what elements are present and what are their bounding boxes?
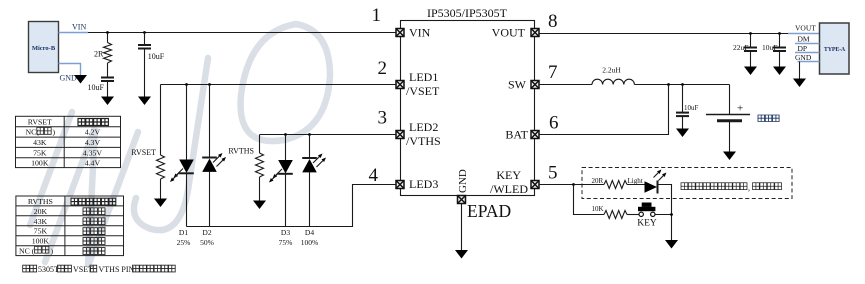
wire C2 to gnd: [144, 49, 146, 97]
pin 7 square: [531, 81, 539, 89]
svg-text:DM: DM: [798, 35, 810, 44]
svg-text:+: +: [737, 103, 743, 115]
svg-text:SW: SW: [508, 78, 527, 92]
svg-text:TYPE-A: TYPE-A: [824, 47, 846, 53]
connector J2 TYPE-A: [820, 23, 850, 74]
ground battery: [723, 152, 736, 161]
pin 2 square: [396, 81, 404, 89]
svg-text:D1: D1: [179, 228, 188, 237]
svg-text:): ): [51, 247, 54, 256]
wire BAT rail: [540, 85, 669, 135]
wire TYPE-A gnd drop: [799, 62, 801, 79]
svg-text:10uF: 10uF: [762, 43, 777, 52]
svg-text:10uF: 10uF: [148, 52, 165, 61]
pin 6 square: [531, 131, 539, 139]
wire D2 drop: [208, 83, 211, 86]
resistor RVTHS: [228, 147, 263, 178]
ground C3: [744, 67, 757, 76]
op IC U1 IP5305 body: [401, 6, 535, 196]
capacitor C3 22uF: [733, 43, 757, 52]
wire 20R to LED: [627, 184, 645, 186]
junction C5: [681, 83, 684, 86]
svg-text:4.35V: 4.35V: [83, 148, 103, 157]
diode D5 Light LED: [645, 170, 667, 194]
svg-text:BAT: BAT: [505, 128, 528, 142]
table1 header cjk: [78, 119, 108, 126]
svg-text:Light: Light: [628, 177, 643, 185]
resistor 2R: [94, 43, 112, 64]
wire to 20R: [574, 184, 605, 186]
ground C5: [676, 129, 689, 138]
junction VIN-C2: [143, 31, 146, 34]
wire pin5 out: [540, 184, 574, 186]
svg-text:100%: 100%: [301, 238, 319, 247]
ground C4: [773, 67, 786, 76]
svg-text:IP5305/IP5305T: IP5305/IP5305T: [427, 6, 508, 20]
svg-text:RVSET: RVSET: [28, 117, 52, 126]
svg-text:LED2: LED2: [409, 120, 438, 134]
wire D4 bottom: [309, 172, 311, 227]
svg-text:): ): [53, 128, 56, 137]
svg-text:10uF: 10uF: [684, 104, 699, 112]
wire D3 bottom: [285, 174, 287, 227]
svg-text:75K: 75K: [33, 148, 47, 157]
svg-text:50%: 50%: [200, 238, 214, 247]
svg-text:20K: 20K: [34, 207, 48, 216]
svg-text:RVTHS: RVTHS: [28, 197, 53, 206]
wire D3 drop: [284, 133, 287, 136]
diode D2 LED: [202, 153, 226, 172]
svg-text:5: 5: [548, 163, 558, 184]
svg-text:4.2V: 4.2V: [85, 128, 101, 137]
wire to 10K: [574, 185, 605, 215]
svg-text:43K: 43K: [33, 138, 47, 147]
svg-text:5305T: 5305T: [38, 265, 59, 274]
svg-text:VOUT: VOUT: [492, 26, 526, 40]
svg-text:NC(: NC(: [26, 128, 40, 137]
wire inductor to battery: [634, 84, 729, 86]
svg-text:VOUT: VOUT: [795, 24, 816, 33]
wire battery gnd: [729, 121, 731, 152]
pin 8 square: [531, 29, 539, 37]
junction VIN-2R: [106, 31, 109, 34]
svg-text:VIN: VIN: [409, 26, 431, 40]
svg-text:10K: 10K: [592, 205, 604, 213]
wire D4 drop: [308, 133, 311, 136]
ground C2: [138, 97, 151, 106]
wire RVSET to gnd: [160, 179, 162, 199]
svg-text:GND: GND: [60, 74, 78, 83]
svg-text:6: 6: [549, 113, 559, 134]
wire LED to drop: [659, 185, 672, 241]
resistor R 10K: [592, 205, 628, 219]
svg-text:7: 7: [548, 62, 558, 83]
svg-text:D4: D4: [305, 228, 314, 237]
svg-text:D3: D3: [281, 228, 290, 237]
table RVTHS: [16, 196, 124, 256]
svg-text:75%: 75%: [279, 238, 293, 247]
svg-text:,: ,: [748, 184, 750, 193]
svg-text:D2: D2: [202, 228, 211, 237]
svg-text:GND: GND: [795, 53, 812, 62]
wire 2R top: [107, 33, 109, 43]
pin 5 square: [531, 181, 539, 189]
wire GND stub blue: [59, 64, 81, 76]
pin 1 VIN square: [396, 29, 404, 37]
ground key: [665, 240, 678, 249]
svg-text:RVSET: RVSET: [131, 148, 156, 157]
svg-text:2.2uH: 2.2uH: [602, 66, 621, 75]
connector J1 Micro-B: [29, 22, 59, 73]
pin 9 EPAD square: [458, 196, 466, 204]
pin 4 square: [396, 181, 404, 189]
ground C1: [101, 97, 114, 106]
svg-text:4.3V: 4.3V: [85, 138, 101, 147]
svg-text:/WLED: /WLED: [490, 182, 528, 196]
ground TYPE-A: [793, 79, 806, 88]
svg-text:/VTHS: /VTHS: [406, 134, 441, 148]
junction C4: [778, 32, 781, 35]
svg-text:75K: 75K: [34, 227, 48, 236]
ground EPAD: [455, 250, 468, 259]
wire D2 bottom: [209, 172, 211, 227]
svg-text:100K: 100K: [31, 159, 49, 168]
wire D1 bottom: [186, 174, 188, 227]
wire VIN stub blue: [59, 32, 89, 34]
table RVSET: [16, 116, 121, 167]
pin 3 square: [396, 131, 404, 139]
svg-text:4: 4: [369, 165, 379, 186]
wire RVTHS to gnd: [259, 177, 261, 201]
svg-text:Micro-B: Micro-B: [32, 45, 56, 52]
wire RVTHS drop: [259, 135, 261, 154]
diode D3 LED: [269, 160, 293, 183]
pin numbers: [369, 5, 559, 186]
wire VOUT rail: [540, 33, 789, 35]
svg-text:4.4V: 4.4V: [85, 159, 101, 168]
note caption: [23, 265, 176, 274]
switch KEY pushbutton: [637, 203, 657, 229]
wire D1 drop: [185, 83, 188, 86]
wire DM stub: [795, 43, 820, 45]
wire key to junction: [655, 214, 672, 216]
capacitor C4 10uF: [762, 43, 786, 52]
wire C3 drop: [750, 34, 752, 48]
diode D1 LED: [170, 160, 194, 183]
junction C3: [749, 32, 752, 35]
svg-text:43K: 43K: [34, 217, 48, 226]
svg-text:25%: 25%: [177, 238, 191, 247]
resistor RVSET: [131, 148, 164, 179]
inductor L1 2.2uH: [592, 66, 634, 85]
svg-text:KEY: KEY: [496, 168, 521, 182]
svg-text:EPAD: EPAD: [467, 201, 511, 221]
svg-text:KEY: KEY: [637, 219, 657, 229]
svg-text:2: 2: [378, 58, 388, 79]
svg-text:NC (: NC (: [19, 247, 35, 256]
junction SW-BAT: [667, 83, 670, 86]
capacitor C2 10uF: [138, 45, 165, 61]
wire battery drop: [729, 85, 731, 115]
wire C5 gnd: [682, 116, 684, 128]
dashed optional box: [582, 168, 792, 199]
svg-text:LED1: LED1: [409, 70, 438, 84]
svg-text:RVTHS: RVTHS: [228, 147, 254, 156]
wire C4 drop: [779, 34, 781, 48]
svg-text:10uF: 10uF: [88, 83, 105, 92]
wire C2 top: [144, 33, 146, 46]
node TYPE-A pin labels: [795, 24, 816, 63]
wire VIN rail to pin1: [88, 32, 396, 34]
svg-text:1: 1: [372, 5, 382, 26]
svg-text:VIN: VIN: [72, 23, 86, 32]
ground RVTHS: [253, 201, 266, 210]
wire C5 drop: [682, 85, 684, 113]
wire DP stub: [795, 52, 820, 54]
wire C1 to gnd: [107, 81, 109, 97]
wire C3 gnd: [750, 51, 752, 67]
svg-text:20R: 20R: [592, 177, 604, 185]
wire EPAD to gnd: [461, 204, 463, 250]
wire 2R to C1: [107, 63, 109, 78]
node D1 D2 D3 D4 labels: [177, 228, 319, 247]
IC pin labels: [406, 26, 529, 197]
svg-text:LED3: LED3: [409, 177, 438, 191]
wire 10K to key: [627, 214, 639, 216]
capacitor C1 10uF: [88, 78, 115, 93]
resistor R 20R: [592, 177, 628, 189]
watermark: [30, 24, 330, 266]
diode D4 LED: [302, 154, 326, 173]
ground microb: [74, 75, 87, 84]
wire GND stub: [798, 61, 820, 63]
wire pin2 rail: [161, 84, 396, 86]
svg-text:2R: 2R: [94, 50, 104, 59]
svg-text:3: 3: [378, 108, 388, 129]
capacitor C5 10uF: [676, 104, 699, 116]
svg-text:VTHS PIN: VTHS PIN: [99, 265, 135, 274]
battery BT1: [706, 103, 750, 121]
svg-text:DP: DP: [798, 44, 808, 53]
ground RVSET: [154, 199, 167, 208]
wire C4 gnd: [779, 51, 781, 67]
svg-text:/VSET: /VSET: [406, 84, 440, 98]
wire pin3 rail: [260, 134, 396, 136]
junction key branch: [572, 183, 575, 186]
wire LED bottom rail to pin4: [187, 185, 396, 227]
node optional annotation: [681, 183, 747, 190]
svg-text:100K: 100K: [32, 237, 50, 246]
junction key-led: [670, 213, 673, 216]
svg-text:GND: GND: [457, 169, 469, 193]
table2 cjk cells: [71, 198, 116, 205]
wire RVSET drop: [160, 85, 162, 156]
svg-text:22uF: 22uF: [733, 43, 748, 52]
wire SW to inductor: [540, 84, 593, 86]
wire VOUT stub blue: [788, 33, 820, 35]
svg-text:8: 8: [548, 11, 558, 32]
node battery label: [758, 115, 779, 122]
